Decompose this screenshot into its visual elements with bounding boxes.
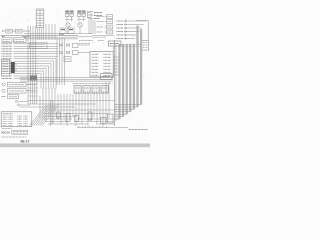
svg-text:6E-17: 6E-17 bbox=[21, 140, 30, 144]
svg-text:#DCSH: #DCSH bbox=[1, 130, 10, 134]
